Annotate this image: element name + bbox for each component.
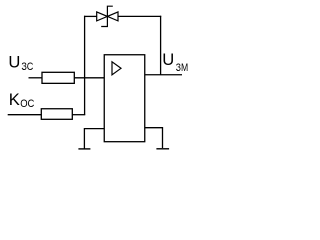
resistor R2 xyxy=(41,109,72,120)
wire op-amp output xyxy=(145,74,182,76)
zener VD1 cathode bar with bent ends xyxy=(101,6,113,26)
op-amp U1 body xyxy=(104,55,145,142)
wire R2 to node A vertical bus xyxy=(72,114,85,116)
svg-text:ЗМ: ЗМ xyxy=(176,62,188,74)
wire input Kос to resistor R2 xyxy=(8,114,42,116)
wire zener VD1 cathode to output node xyxy=(118,15,161,17)
wire bus top to zener VD1 anode xyxy=(84,15,97,17)
wire R1 to op-amp input node A xyxy=(74,77,104,79)
node label Uзм (output voltage) xyxy=(162,50,188,74)
wire input Uзс to resistor R1 xyxy=(29,77,43,79)
wire op-amp lower left pin to ground xyxy=(84,129,104,149)
op-amp U1 amplifier triangle symbol xyxy=(112,62,121,75)
svg-text:U: U xyxy=(8,52,20,71)
svg-text:ОС: ОС xyxy=(20,98,34,110)
ground bar right xyxy=(156,148,169,150)
ground bar left xyxy=(78,148,90,150)
zener VD1 right diode triangle xyxy=(107,12,118,21)
zener VD1 left diode triangle xyxy=(97,12,108,21)
svg-text:K: K xyxy=(9,90,20,109)
node label Uзс (setting signal input) xyxy=(8,52,33,73)
svg-text:ЗС: ЗС xyxy=(21,61,33,73)
svg-text:U: U xyxy=(162,50,174,69)
wire op-amp lower right pin to ground xyxy=(145,128,163,148)
node A vertical feedback bus wire xyxy=(84,16,86,115)
resistor R1 xyxy=(42,72,74,83)
wire feedback vertical drop to output node xyxy=(160,16,162,75)
node label Kос (feedback coefficient input) xyxy=(9,90,35,110)
